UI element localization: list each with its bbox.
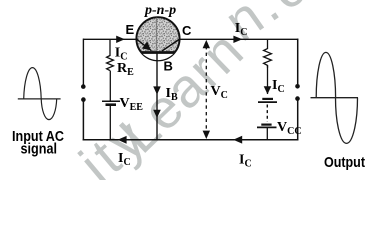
node: output terminal lower dot (295, 96, 300, 101)
svg-text:RE: RE (117, 61, 134, 78)
wire: bottom rail (83, 139, 299, 141)
transistor base bar (142, 51, 175, 54)
svg-text:C: C (182, 23, 192, 38)
watermark middle (107, 19, 255, 165)
wire: collector top horizontal (180, 38, 299, 40)
node: input terminal lower dot (81, 97, 86, 102)
wire: resistor to arrow (267, 65, 269, 94)
wire: VCC branch top (267, 39, 269, 49)
svg-text:signal: signal (21, 142, 58, 158)
wire: right vertical upper (297, 39, 299, 86)
wire: emitter top horizontal (83, 38, 137, 40)
battery VEE long plate (102, 100, 120, 102)
resistor RC (264, 49, 272, 68)
arrow: emitter arrowhead (pnp, into base) (142, 41, 151, 50)
svg-text:B: B (164, 59, 173, 74)
arrow: collector current IC (233, 36, 242, 43)
battery VCC cell1 short plate (262, 98, 273, 100)
battery VCC cell2 long plate (257, 126, 277, 128)
output sine symbol (311, 52, 359, 143)
arrow: bottom-left current arrow (118, 136, 127, 144)
wire: left vertical lower (82, 100, 84, 141)
arrow: emitter current into E (116, 36, 125, 43)
svg-text:IC: IC (239, 153, 252, 170)
node: input terminal upper dot (81, 84, 86, 89)
wire: dashed between cells (266, 105, 268, 122)
svg-text:IC: IC (115, 46, 128, 63)
svg-text:Output: Output (324, 154, 365, 171)
resistor RE (107, 56, 114, 71)
input AC source sine symbol (18, 68, 61, 120)
wire: RE to VEE (109, 71, 111, 101)
arrow: VC bottom arrowhead (203, 131, 210, 139)
watermark (68, 105, 159, 196)
battery VCC cell1 long plate (258, 101, 277, 103)
wire: left vertical upper (82, 39, 84, 86)
battery VEE short plate (106, 103, 117, 106)
wire: right vertical lower (297, 99, 299, 141)
battery VCC cell2 short plate (261, 123, 271, 125)
transistor collector internal line (162, 39, 180, 51)
svg-text:IC: IC (272, 78, 285, 95)
arrow: bottom-middle current arrow (233, 136, 242, 144)
node: output terminal upper dot (295, 84, 300, 89)
arrow: VC top arrowhead (203, 40, 210, 48)
transistor Q1 body circle (136, 17, 179, 60)
transistor emitter internal line (137, 39, 152, 51)
svg-text:Learn: Learn (107, 19, 255, 165)
wire: VCC to rail (266, 128, 268, 140)
wire: base lead (156, 53, 158, 141)
resistor RE branch wire top (109, 39, 111, 56)
watermark fragment top right (213, 0, 347, 53)
svg-text:E: E (126, 22, 135, 37)
transistor white segment below base bar (142, 53, 175, 61)
arrow: IC arrowhead in right branch (264, 86, 272, 94)
wire: VEE to rail (109, 106, 111, 141)
arrow: base current IB first arrowhead (153, 86, 161, 94)
dashed VC measurement line (205, 46, 207, 133)
svg-text:p-n-p: p-n-p (144, 3, 176, 18)
arrow: base current IB second arrowhead (153, 110, 161, 118)
transistor faint center line (156, 18, 158, 52)
